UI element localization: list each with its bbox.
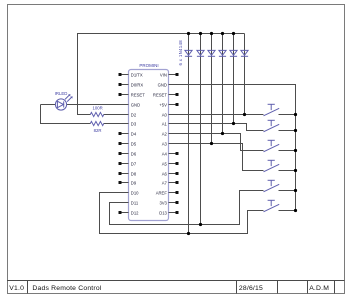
wire: D10 loop to SW6 <box>100 193 264 234</box>
svg-text:AREF: AREF <box>156 190 168 195</box>
svg-text:+5V: +5V <box>159 102 167 107</box>
svg-text:3V3: 3V3 <box>159 200 167 205</box>
pin D5 (left) <box>121 143 129 145</box>
svg-text:D7: D7 <box>131 161 137 166</box>
pin A7 (right) <box>169 182 177 184</box>
pin RESET (left) <box>121 94 129 96</box>
pin D10 (left) <box>121 192 129 194</box>
pin D1/TX (left) <box>121 74 129 76</box>
svg-text:6 x 1N4148: 6 x 1N4148 <box>178 40 183 66</box>
svg-text:A4: A4 <box>162 151 168 156</box>
wire: R2 to pin D3 <box>104 123 129 125</box>
pin D13 (right) <box>169 212 177 214</box>
junction <box>243 113 246 116</box>
wire: diode D2 vertical <box>200 34 202 225</box>
wire: top diode rail + left riser to R1 <box>78 34 245 115</box>
wire: SW4 to bus <box>279 170 296 172</box>
svg-text:D0/RX: D0/RX <box>131 82 144 87</box>
svg-text:A1: A1 <box>162 121 168 126</box>
wire: SW5 to bus <box>279 190 296 192</box>
svg-text:PROMINI: PROMINI <box>139 63 158 68</box>
svg-text:V1.0: V1.0 <box>9 285 24 292</box>
diode D3 1N4148 <box>208 50 215 56</box>
pin A1 (right) <box>169 123 177 125</box>
pin 3V3 (right) <box>169 202 177 204</box>
pin D4 (left) <box>121 133 129 135</box>
pin GND (left) <box>121 104 129 106</box>
switch SW2 pushbutton <box>264 120 280 132</box>
svg-text:D9: D9 <box>131 180 137 185</box>
wire: R1 to pin D2 <box>104 114 129 116</box>
wire: diode D4 vertical <box>222 34 224 134</box>
pin A2 (right) <box>169 133 177 135</box>
svg-text:VIN: VIN <box>160 72 167 77</box>
pin VIN (right) <box>169 74 177 76</box>
svg-text:GND: GND <box>131 102 140 107</box>
pin AREF (right) <box>169 192 177 194</box>
svg-text:D5: D5 <box>131 141 137 146</box>
svg-text:D8: D8 <box>131 171 137 176</box>
svg-text:A5: A5 <box>162 161 168 166</box>
wire: A3 row to SW4 <box>177 144 264 171</box>
diode D6 1N4148 <box>241 50 248 56</box>
switch SW4 pushbutton <box>264 160 280 172</box>
pin GND (right) <box>169 84 177 86</box>
pin +5V (right) <box>169 104 177 106</box>
diode D1 1N4148 <box>185 50 192 56</box>
junction <box>187 232 190 235</box>
junction <box>232 32 235 35</box>
resistor R2 82R <box>90 121 104 125</box>
svg-text:RESET: RESET <box>153 92 167 97</box>
junction <box>221 32 224 35</box>
svg-text:A2: A2 <box>162 131 168 136</box>
pin RESET (right) <box>169 94 177 96</box>
svg-text:IRLED: IRLED <box>55 91 68 96</box>
pin A3 (right) <box>169 143 177 145</box>
wire: A1 row to SW2 <box>177 124 264 131</box>
svg-text:RESET: RESET <box>131 92 145 97</box>
svg-text:GND: GND <box>158 82 167 87</box>
switch SW6 pushbutton <box>264 200 280 212</box>
diode D5 1N4148 <box>230 50 237 56</box>
pin D7 (left) <box>121 163 129 165</box>
pin D2 (left) <box>121 114 129 116</box>
junction <box>294 129 297 132</box>
wire: SW3 to bus <box>279 150 296 152</box>
pin A6 (right) <box>169 173 177 175</box>
pin A0 (right) <box>169 114 177 116</box>
switch SW3 pushbutton <box>264 140 280 152</box>
IC U1 PROMINI (Arduino Pro Mini) <box>129 70 169 221</box>
svg-text:D13: D13 <box>159 210 167 215</box>
wire: SW2 to bus <box>279 130 296 132</box>
svg-text:A6: A6 <box>162 171 168 176</box>
wire: A0 row to SW1 <box>177 114 264 116</box>
wire: SW6 to bus <box>279 210 296 212</box>
diode D2 1N4148 <box>197 50 204 56</box>
svg-text:D3: D3 <box>131 121 137 126</box>
LED IRLED <box>55 95 71 110</box>
wire: D11 loop to SW5 <box>110 191 264 225</box>
svg-text:D1/TX: D1/TX <box>131 72 143 77</box>
junction <box>210 32 213 35</box>
junction <box>294 189 297 192</box>
junction <box>221 132 224 135</box>
title block <box>7 281 345 294</box>
pin D12 (left) <box>121 212 129 214</box>
wire: LED cathode to GND pin <box>67 104 129 106</box>
switch SW1 pushbutton <box>264 104 280 116</box>
svg-text:D4: D4 <box>131 131 137 136</box>
wire: SW1 to bus <box>279 114 296 116</box>
svg-text:D12: D12 <box>131 210 139 215</box>
junction <box>187 32 190 35</box>
junction <box>294 149 297 152</box>
wire: diode D5 vertical <box>233 34 235 124</box>
wire: diode D6 vertical <box>244 34 246 115</box>
pin D3 (left) <box>121 123 129 125</box>
svg-text:A0: A0 <box>162 112 168 117</box>
pin D6 (left) <box>121 153 129 155</box>
svg-text:28/6/15: 28/6/15 <box>239 285 263 292</box>
svg-text:A7: A7 <box>162 180 168 185</box>
svg-text:A.D.M: A.D.M <box>309 285 329 292</box>
svg-text:D6: D6 <box>131 151 137 156</box>
wire: diode D1 vertical <box>188 34 190 234</box>
pin A4 (right) <box>169 153 177 155</box>
junction <box>199 223 202 226</box>
svg-text:82R: 82R <box>94 128 102 133</box>
svg-text:Dads Remote Control: Dads Remote Control <box>32 285 101 292</box>
junction <box>294 113 297 116</box>
svg-text:D10: D10 <box>131 190 139 195</box>
diode D4 1N4148 <box>219 50 226 56</box>
svg-text:D2: D2 <box>131 112 137 117</box>
switch SW5 pushbutton <box>264 180 280 192</box>
pin D8 (left) <box>121 173 129 175</box>
wire: diode D3 vertical <box>211 34 213 144</box>
junction <box>294 169 297 172</box>
wire: LED anode from left loop <box>41 104 56 106</box>
junction <box>294 209 297 212</box>
wire: left loop down to R2 <box>41 105 91 124</box>
pin A5 (right) <box>169 163 177 165</box>
wire: GND pin to switch bus <box>177 85 296 211</box>
svg-text:D11: D11 <box>131 200 139 205</box>
pin D9 (left) <box>121 182 129 184</box>
pin D11 (left) <box>121 202 129 204</box>
wire: A2 row to SW3 <box>177 134 264 151</box>
junction <box>199 32 202 35</box>
junction <box>210 142 213 145</box>
resistor R1 100R <box>90 112 104 116</box>
pin D0/RX (left) <box>121 84 129 86</box>
svg-text:A3: A3 <box>162 141 168 146</box>
svg-text:100R: 100R <box>92 106 102 111</box>
junction <box>232 122 235 125</box>
